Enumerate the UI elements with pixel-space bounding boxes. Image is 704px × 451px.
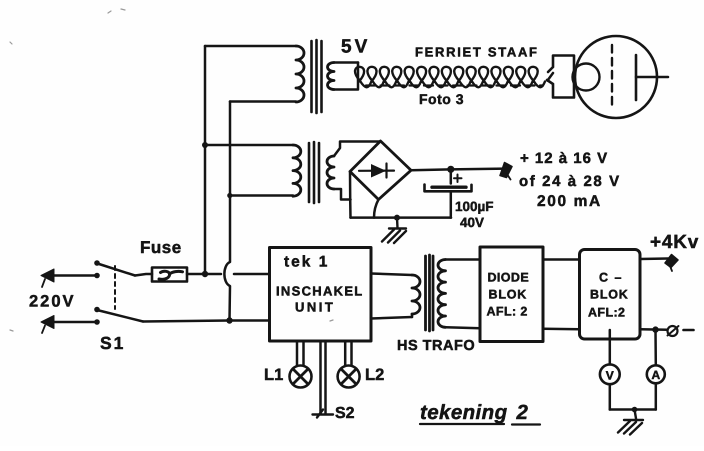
tube V1 envelope (575, 36, 657, 118)
box C blok (580, 250, 641, 340)
switch S2 end bar (313, 410, 334, 418)
svg-text:220V: 220V (29, 293, 76, 311)
node fuse bus junction (202, 271, 208, 277)
wire HS secondary to diode blok bottom (446, 327, 481, 328)
svg-text:L1: L1 (264, 366, 283, 384)
meter A (647, 365, 665, 383)
node meters ground junction (632, 407, 638, 413)
tube V1 anode (635, 55, 638, 100)
wire A branch down to A meter (654, 330, 657, 366)
tube V1 grid (dashed) (611, 45, 613, 110)
tube socket block (547, 56, 574, 98)
node A-meter junction (652, 326, 658, 332)
wire fuse to bus A (187, 273, 205, 276)
svg-text:+ 12 à 16 V: + 12 à 16 V (520, 150, 608, 167)
box tek1 inschakel unit (270, 248, 372, 342)
wire unit to HS trafo bottom (371, 317, 412, 319)
node ground junction (394, 215, 400, 221)
svg-text:S2: S2 (335, 405, 355, 422)
transformer T2 secondary winding (327, 156, 334, 189)
wire T1 primary top (205, 45, 296, 48)
node bus B bottom junction (226, 317, 232, 323)
svg-text:AFL: 2: AFL: 2 (487, 305, 528, 319)
capacitor C1 plus plate (432, 185, 466, 188)
switch S1 pole 2 blade (99, 311, 143, 322)
wire switch to fuse (135, 274, 152, 276)
terminal mains L (41, 269, 54, 282)
wire bottom rail to capacitor (351, 216, 452, 219)
ferrite rod (dashed) (366, 84, 543, 86)
transformer T2 core (309, 142, 319, 203)
wire capacitor bottom (450, 193, 453, 218)
ferrite rod coil L-ant (355, 67, 545, 87)
wire bus B (neutral to transformer primaries bottom) (224, 102, 230, 321)
wire mains N to switch (54, 321, 97, 324)
scan speck top-left (10, 9, 333, 331)
svg-text:of 24 à 28 V: of 24 à 28 V (519, 173, 621, 190)
wire T2 primary bottom (230, 194, 293, 197)
transformer T1 primary winding (296, 46, 304, 102)
svg-text:AFL:2: AFL:2 (588, 306, 625, 320)
tube V1 cathode circle (573, 64, 600, 91)
svg-text:S1: S1 (100, 333, 125, 353)
wire T1 primary bottom (230, 100, 296, 103)
transformer T1 secondary winding (5V) (328, 63, 335, 90)
wire A meter down (655, 383, 658, 409)
svg-text:Fuse: Fuse (140, 238, 182, 257)
terminal +12V output (500, 163, 512, 178)
ground symbol (meters) (618, 410, 643, 435)
svg-text:L2: L2 (365, 366, 384, 384)
lamp L2 (338, 366, 360, 388)
wire T2 secondary top to bridge (334, 142, 380, 157)
switch S1 pole 1 contacts (94, 273, 100, 279)
node bus A / T2 primary junction (202, 142, 208, 148)
svg-text:DIODE: DIODE (488, 271, 530, 285)
svg-text:UNIT: UNIT (295, 300, 335, 315)
terminal mains N (41, 316, 54, 329)
fuse F1 (152, 268, 187, 282)
switch S1 pole 1 blade (99, 264, 135, 276)
wire C blok to minus terminal (640, 328, 668, 331)
wire T2 primary top (205, 144, 293, 147)
switch S1 pole 2 contacts (94, 319, 100, 325)
wire lamp L1 stems (297, 342, 304, 366)
wire bridge bottom corner down (374, 200, 379, 218)
svg-text:100µF: 100µF (455, 199, 494, 214)
terminal +4Kv (665, 255, 678, 268)
capacitor polarity plus (454, 175, 462, 183)
meter V (600, 364, 620, 384)
lamp L1 (290, 366, 312, 388)
svg-text:V: V (606, 368, 614, 382)
wire 5V secondary to ferrite coil bottom (334, 63, 358, 90)
svg-text:40V: 40V (460, 215, 484, 230)
ground symbol (bridge) (382, 218, 406, 243)
bridge diode symbol (359, 164, 394, 178)
svg-text:5V: 5V (341, 37, 370, 58)
svg-text:BLOK: BLOK (489, 288, 528, 302)
HS trafo primary winding (412, 275, 420, 314)
wire bus A (fuse to transformer primaries top) (204, 46, 207, 274)
wire HS secondary to diode blok top (446, 258, 481, 261)
wire coil to tube socket (548, 73, 554, 81)
switch S1 link (dashed) (114, 266, 116, 309)
capacitor C1 minus plate (bracket) (425, 185, 472, 192)
svg-text:+4Kv: +4Kv (650, 232, 699, 253)
wire C blok to +4Kv terminal (640, 257, 668, 260)
wire capacitor top (450, 169, 453, 183)
wire mains L to switch (54, 274, 97, 277)
wire V meter down (609, 384, 612, 409)
wire lamp L2 stems (345, 342, 351, 366)
node capacitor junction (447, 166, 454, 173)
svg-text:Foto 3: Foto 3 (419, 91, 464, 107)
node bus B / T2 primary bottom junction (227, 193, 232, 198)
wire 5V secondary to ferrite coil top (334, 61, 358, 64)
wire unit to HS trafo top (371, 274, 412, 276)
box diode blok (480, 247, 543, 342)
HS trafo secondary winding (438, 260, 446, 328)
svg-text:BLOK: BLOK (590, 288, 629, 302)
wire switch S2 stems (321, 342, 326, 415)
wire C blok bottom to V meter (609, 330, 612, 364)
svg-text:200 mA: 200 mA (537, 193, 602, 210)
wire bus A to inschakel unit (205, 273, 270, 276)
svg-text:FERRIET STAAF: FERRIET STAAF (415, 45, 539, 60)
wire neutral to inschakel unit (143, 321, 270, 322)
bridge rectifier B1 (350, 141, 411, 200)
wire bridge minus corner down (349, 172, 352, 218)
svg-text:HS TRAFO: HS TRAFO (397, 338, 475, 354)
HS trafo core (426, 255, 434, 331)
wire anode lead (636, 76, 668, 79)
transformer T2 primary winding (293, 145, 301, 196)
wire diode blok to C blok top (543, 258, 580, 261)
wire diode blok to C blok bottom (543, 328, 580, 331)
label minus (684, 329, 694, 332)
svg-text:tek 1: tek 1 (284, 254, 329, 271)
wire T2 secondary bottom (334, 189, 351, 200)
svg-text:INSCHAKEL: INSCHAKEL (276, 284, 364, 299)
transformer T1 core (312, 40, 322, 113)
svg-text:A: A (651, 368, 660, 382)
svg-text:C –: C – (599, 271, 623, 285)
terminal minus (circle) (668, 326, 678, 336)
wire bridge plus output (411, 169, 505, 171)
wire meters bottom rail (610, 408, 656, 411)
